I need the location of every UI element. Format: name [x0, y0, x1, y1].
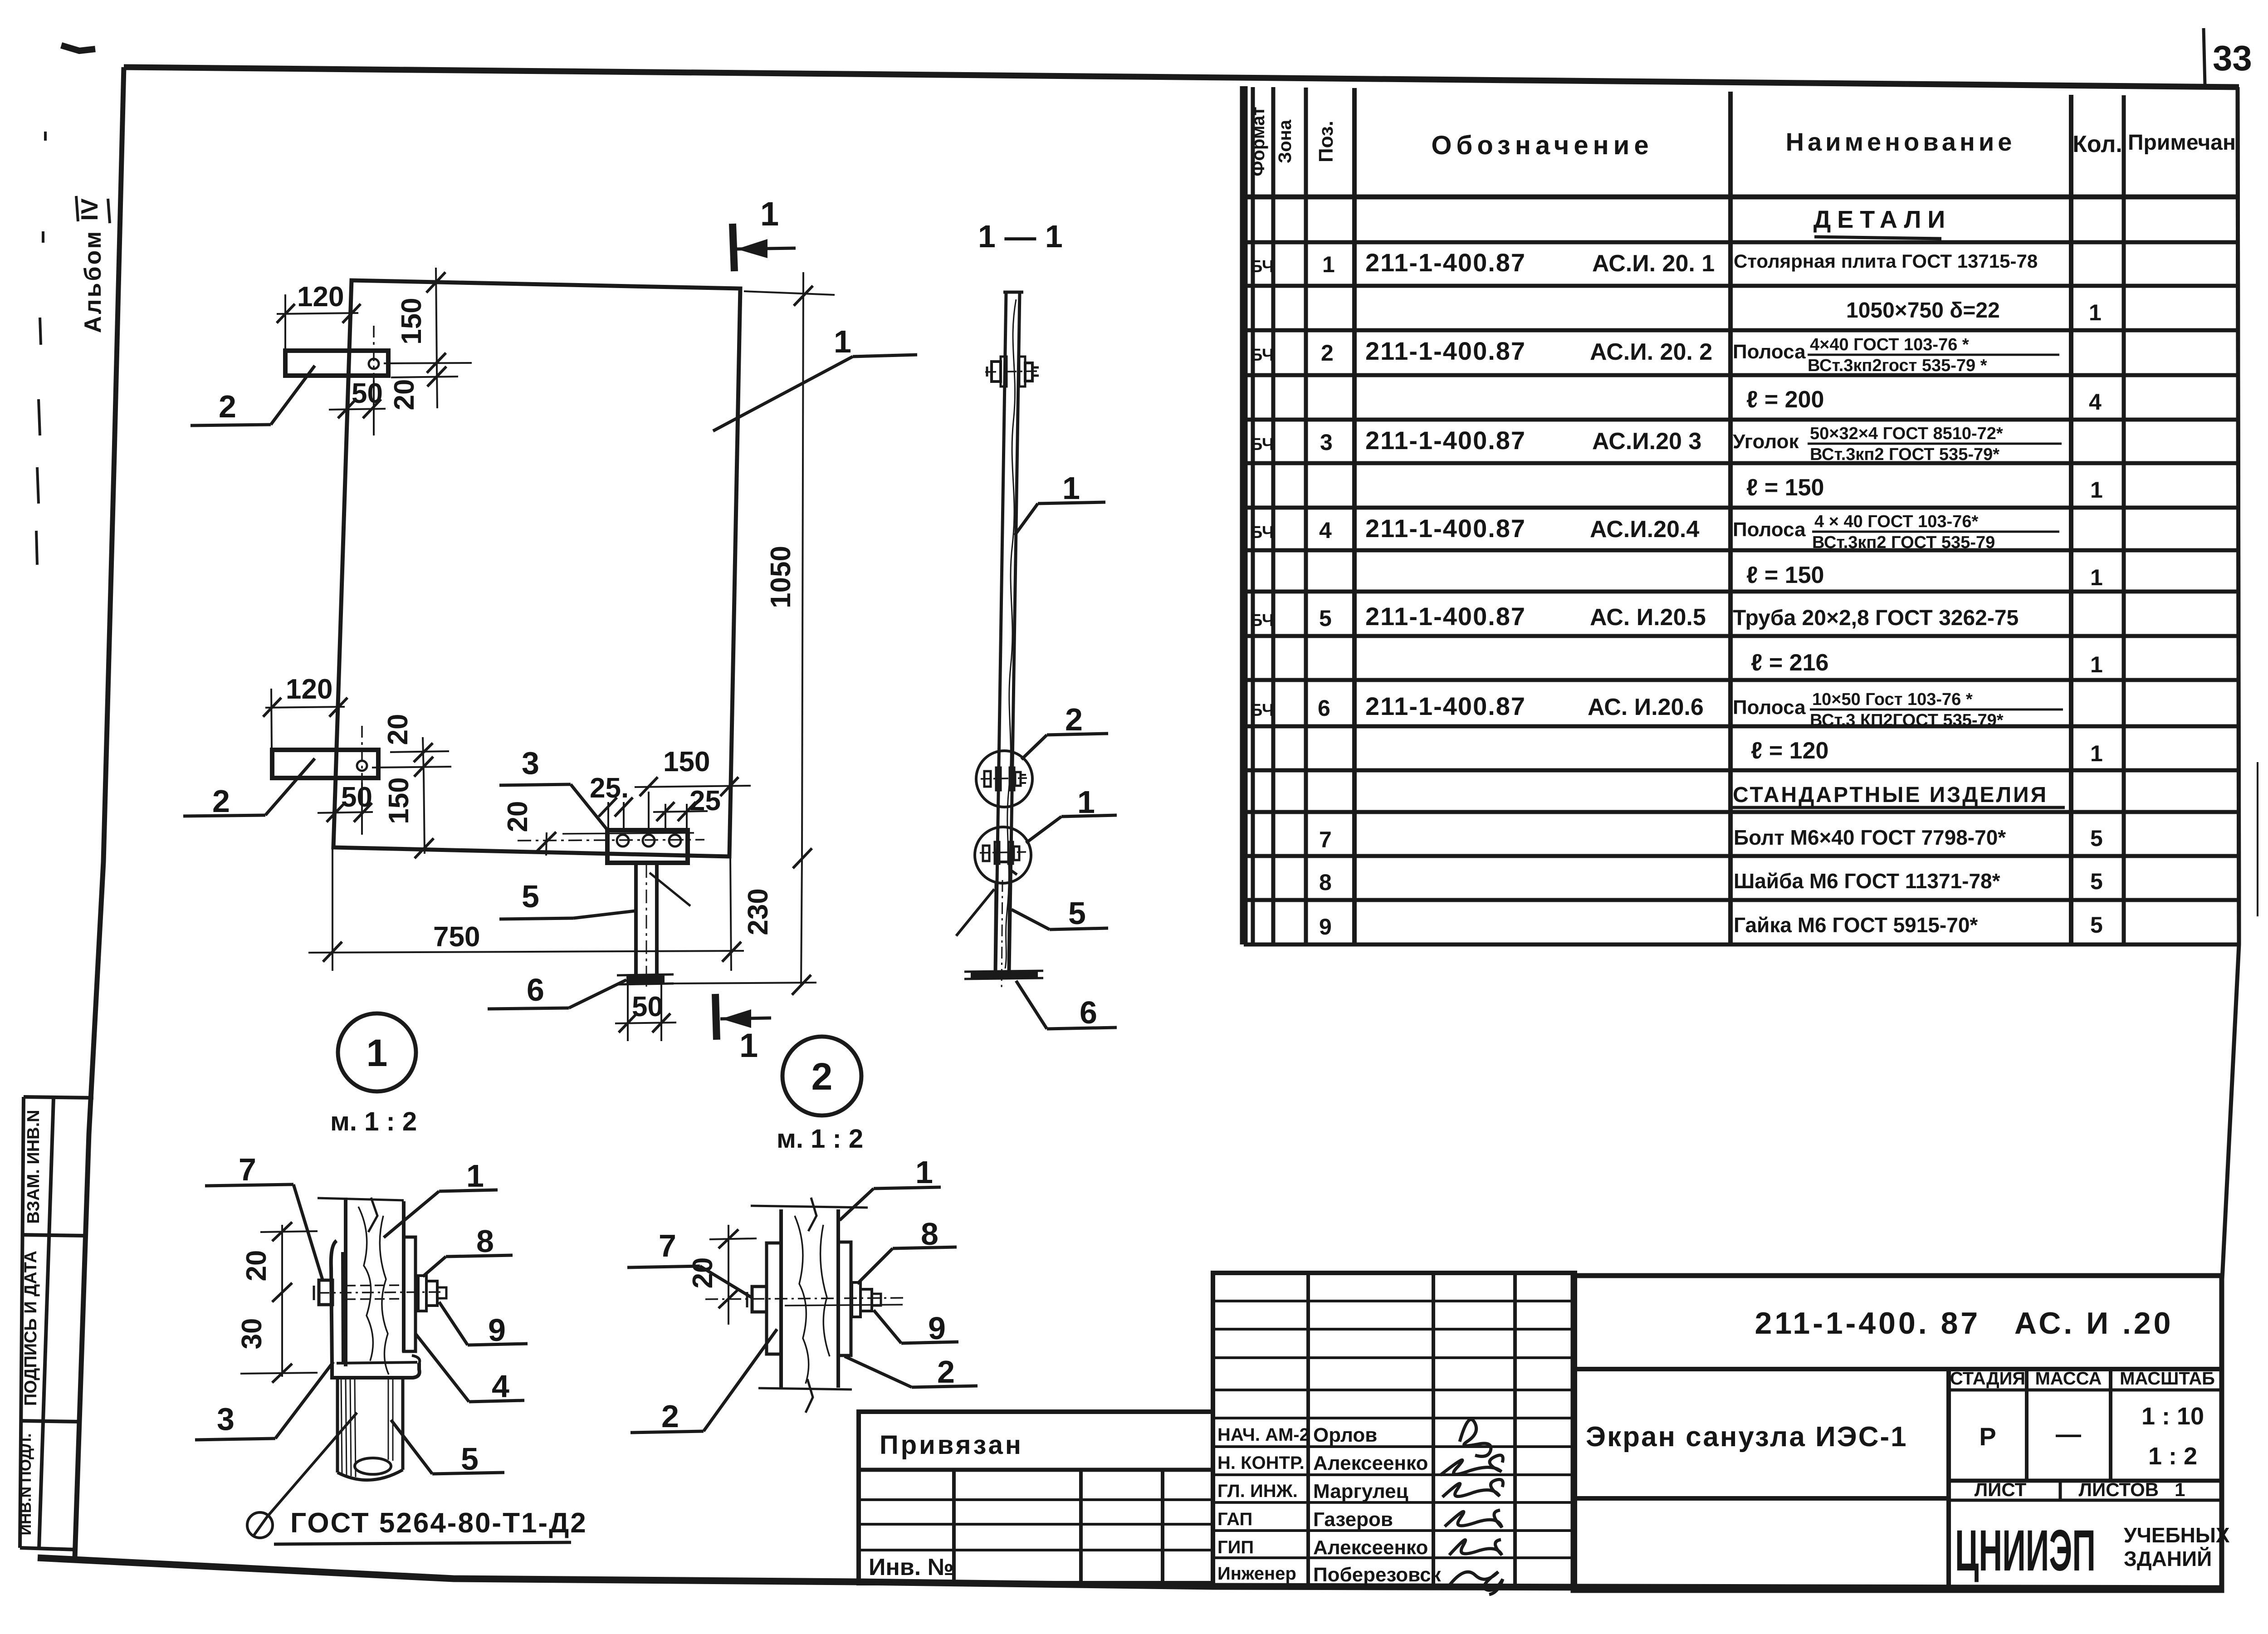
svg-text:Привязан: Привязан — [880, 1430, 1023, 1460]
svg-text:ЦНИИЭП: ЦНИИЭП — [1955, 1518, 2096, 1583]
title block main — [1573, 1276, 2222, 1590]
svg-text:2: 2 — [1321, 340, 1334, 366]
svg-text:2: 2 — [219, 389, 236, 424]
svg-text:Примечан: Примечан — [2128, 131, 2236, 155]
svg-text:Н. КОНТР.: Н. КОНТР. — [1217, 1453, 1305, 1473]
list listov row — [1949, 1479, 2222, 1500]
svg-text:Формат: Формат — [1248, 107, 1268, 176]
row 4b l150 — [1746, 562, 2103, 590]
svg-text:Экран санузла ИЭС-1: Экран санузла ИЭС-1 — [1586, 1421, 1908, 1453]
svg-text:211-1-400.87: 211-1-400.87 — [1365, 692, 1526, 720]
svg-text:ℓ = 200: ℓ = 200 — [1746, 386, 1824, 413]
detail1 nut poz9 — [426, 1281, 446, 1306]
svg-text:НАЧ. АМ-2: НАЧ. АМ-2 — [1217, 1425, 1310, 1445]
svg-text:7: 7 — [659, 1228, 676, 1263]
sidebar box — [20, 1097, 93, 1550]
label 6 section leader — [1016, 981, 1117, 1030]
leader line lower-left section — [956, 889, 994, 936]
plate poz3 front — [518, 802, 704, 863]
detail2 label 7 — [627, 1228, 753, 1298]
svg-text:ℓ = 120: ℓ = 120 — [1751, 738, 1828, 764]
row 3b l150 — [1746, 475, 2103, 503]
weld leader small — [650, 873, 690, 906]
svg-text:1: 1 — [739, 1027, 758, 1064]
svg-text:ГОСТ 5264-80-Т1-Д2: ГОСТ 5264-80-Т1-Д2 — [290, 1507, 587, 1539]
dim 20 top — [389, 367, 458, 410]
svg-text:6: 6 — [1080, 995, 1097, 1030]
svg-text:—: — — [2056, 1419, 2081, 1448]
svg-text:20: 20 — [241, 1250, 272, 1282]
page number 33 — [2204, 28, 2252, 85]
detail circle 1 section — [975, 827, 1031, 883]
svg-text:БЧ: БЧ — [1250, 435, 1274, 454]
svg-text:ЗДАНИЙ: ЗДАНИЙ — [2124, 1547, 2212, 1570]
detail2 washer poz8 — [852, 1282, 860, 1317]
svg-text:5: 5 — [1319, 606, 1332, 631]
svg-text:20: 20 — [502, 801, 533, 832]
svg-text:Полоса: Полоса — [1733, 341, 1806, 363]
row 3 ugolok — [1250, 424, 2062, 464]
row 1b size — [1846, 298, 2102, 325]
top bolt assembly section — [985, 357, 1040, 386]
sheet frame bottom border — [38, 1558, 2220, 1589]
weld symbol gost — [247, 1413, 587, 1544]
dim 50 top — [329, 378, 386, 435]
sheet frame top border — [124, 67, 2239, 87]
svg-text:Наименование: Наименование — [1786, 127, 2016, 156]
row detali — [1813, 206, 1951, 239]
svg-text:1050: 1050 — [765, 546, 797, 608]
detail2 bolt head poz7 — [747, 1287, 767, 1312]
dim 120 bottom — [263, 674, 347, 750]
svg-text:ВСт.3кп2 ГОСТ 535-79*: ВСт.3кп2 ГОСТ 535-79* — [1810, 445, 1999, 464]
detail2 strip right poz2 — [838, 1242, 851, 1355]
svg-text:50: 50 — [632, 991, 663, 1022]
svg-text:2: 2 — [1065, 702, 1083, 737]
svg-text:4: 4 — [2089, 389, 2102, 415]
svg-text:Зона: Зона — [1275, 119, 1295, 163]
svg-text:IV: IV — [77, 198, 103, 220]
svg-text:БЧ: БЧ — [1250, 257, 1274, 276]
svg-text:211-1-400.87: 211-1-400.87 — [1365, 426, 1526, 455]
svg-text:1: 1 — [760, 195, 779, 233]
section mark 1 top — [733, 195, 796, 271]
svg-text:МАСШТАБ: МАСШТАБ — [2120, 1369, 2215, 1389]
row 1 plita — [1250, 248, 2038, 277]
label 6 front leader — [488, 972, 626, 1009]
signature block — [1213, 1273, 1575, 1595]
svg-text:211-1-400.87: 211-1-400.87 — [1365, 514, 1526, 543]
dim 50 foot — [615, 983, 676, 1041]
tsniiep logo — [1955, 1518, 2230, 1583]
svg-text:5: 5 — [2090, 826, 2103, 851]
svg-text:150: 150 — [383, 777, 415, 824]
foot plate poz6 front — [617, 974, 674, 984]
svg-text:Гайка М6 ГОСТ 5915-70*: Гайка М6 ГОСТ 5915-70* — [1734, 913, 1978, 937]
svg-text:1: 1 — [466, 1158, 484, 1194]
svg-text:25.: 25. — [590, 773, 629, 804]
foot plate section — [964, 971, 1043, 979]
svg-text:30: 30 — [236, 1318, 268, 1350]
dim 25 left — [590, 773, 633, 817]
dim 25 right — [653, 785, 721, 821]
dim 1050 — [744, 272, 835, 868]
svg-text:9: 9 — [928, 1311, 946, 1346]
svg-text:Полоса: Полоса — [1733, 519, 1806, 541]
svg-text:2: 2 — [811, 1055, 833, 1098]
svg-text:Столярная плита ГОСТ 13715-78: Столярная плита ГОСТ 13715-78 — [1734, 250, 2038, 272]
svg-text:1: 1 — [2090, 565, 2103, 590]
svg-text:5: 5 — [461, 1441, 479, 1477]
svg-text:1050×750 δ=22: 1050×750 δ=22 — [1846, 298, 2000, 323]
svg-text:1: 1 — [367, 1032, 388, 1074]
svg-text:ГАП: ГАП — [1217, 1509, 1252, 1529]
detail1 label 5 — [391, 1420, 504, 1477]
left page edge dashes — [36, 132, 45, 565]
tube poz5 front — [636, 863, 657, 987]
row 4 polosa — [1250, 512, 2059, 552]
svg-text:1 — 1: 1 — 1 — [978, 219, 1063, 254]
svg-text:ИНВ.N ПОДЛ.: ИНВ.N ПОДЛ. — [17, 1433, 34, 1536]
svg-text:ВСт.3 КП2ГОСТ 535-79*: ВСт.3 КП2ГОСТ 535-79* — [1810, 711, 2004, 730]
section mark 1 bottom — [715, 994, 771, 1064]
svg-text:Обозначение: Обозначение — [1431, 131, 1653, 160]
dim 150 bottom — [383, 757, 434, 858]
svg-text:Алексеенко: Алексеенко — [1313, 1452, 1428, 1474]
svg-text:Труба 20×2,8 ГОСТ 3262-75: Труба 20×2,8 ГОСТ 3262-75 — [1733, 606, 2019, 630]
label 1 panel leader — [713, 324, 917, 431]
svg-text:ВСт.3кп2 ГОСТ 535-79: ВСт.3кп2 ГОСТ 535-79 — [1812, 533, 1995, 552]
detail2 label 1 — [840, 1155, 941, 1220]
svg-text:5: 5 — [2090, 912, 2103, 938]
svg-text:ℓ = 150: ℓ = 150 — [1746, 475, 1824, 501]
row 6b l120 — [1751, 738, 2103, 766]
svg-text:9: 9 — [1319, 914, 1332, 939]
row 2 polosa — [1250, 335, 2059, 375]
svg-text:ℓ = 150: ℓ = 150 — [1746, 562, 1824, 588]
svg-text:УЧЕБНЫХ: УЧЕБНЫХ — [2124, 1523, 2230, 1547]
svg-text:АС.И. 20. 1: АС.И. 20. 1 — [1592, 250, 1715, 277]
bracket poz2 bottom — [272, 726, 378, 783]
row 9 gaika — [1319, 912, 2103, 939]
label 3 leader — [499, 745, 608, 831]
svg-text:ГИП: ГИП — [1217, 1537, 1254, 1557]
svg-text:20: 20 — [382, 714, 414, 745]
svg-text:ℓ = 216: ℓ = 216 — [1751, 650, 1828, 676]
svg-text:10×50 Гост 103-76 *: 10×50 Гост 103-76 * — [1812, 690, 1973, 709]
svg-text:ПОДПИСЬ И ДАТА: ПОДПИСЬ И ДАТА — [21, 1251, 40, 1406]
svg-text:Уголок: Уголок — [1733, 431, 1799, 453]
svg-text:Поз.: Поз. — [1315, 121, 1337, 162]
detail2 label 8 — [857, 1216, 957, 1284]
svg-text:4: 4 — [1319, 518, 1332, 543]
signatures squiggles — [1440, 1419, 1503, 1595]
svg-text:1: 1 — [1322, 252, 1335, 277]
svg-text:4: 4 — [492, 1369, 509, 1404]
svg-text:ЛИСТОВ 1: ЛИСТОВ 1 — [2079, 1479, 2185, 1500]
svg-text:БЧ: БЧ — [1250, 701, 1274, 720]
detail2 centerline — [705, 1298, 906, 1306]
detail1 label 4 — [415, 1334, 524, 1404]
dim 120 top — [277, 281, 361, 351]
svg-text:АС.И.20 3: АС.И.20 3 — [1592, 428, 1701, 455]
svg-text:1: 1 — [2090, 652, 2103, 677]
svg-text:ВЗАМ. ИНВ.N: ВЗАМ. ИНВ.N — [24, 1110, 43, 1223]
detail1 label 1 — [384, 1158, 498, 1238]
row 7 bolt — [1319, 826, 2103, 852]
corner scan mark — [61, 45, 95, 51]
svg-text:1: 1 — [915, 1155, 933, 1190]
detail1 bolt poz7 — [314, 1280, 445, 1305]
row 5b l216 — [1751, 650, 2103, 677]
svg-text:50×32×4 ГОСТ 8510-72*: 50×32×4 ГОСТ 8510-72* — [1810, 424, 2003, 443]
detail1 washer poz8 — [418, 1276, 426, 1311]
page edge artifact right — [2257, 762, 2258, 916]
dim 150 top — [384, 268, 472, 373]
svg-text:1 : 2: 1 : 2 — [2148, 1443, 2197, 1470]
sheet frame left border — [75, 67, 124, 1558]
svg-text:1: 1 — [2090, 741, 2103, 766]
svg-text:2: 2 — [212, 783, 230, 819]
svg-text:7: 7 — [1319, 827, 1332, 852]
tube section — [995, 880, 1010, 991]
svg-text:211-1-400.87: 211-1-400.87 — [1365, 248, 1526, 277]
svg-text:8: 8 — [476, 1223, 494, 1259]
svg-text:БЧ: БЧ — [1250, 611, 1274, 630]
svg-text:МАССА: МАССА — [2035, 1369, 2102, 1389]
svg-text:120: 120 — [286, 674, 332, 705]
svg-text:5: 5 — [2090, 869, 2103, 894]
svg-text:Инв. №: Инв. № — [869, 1554, 954, 1580]
row 8 shaiba — [1319, 869, 2103, 895]
svg-text:4×40 ГОСТ 103-76 *: 4×40 ГОСТ 103-76 * — [1810, 335, 1969, 354]
svg-text:5: 5 — [1068, 895, 1086, 931]
detail1 label 8 — [423, 1223, 513, 1277]
svg-text:Инженер: Инженер — [1217, 1564, 1296, 1584]
detail2 label 9 — [874, 1310, 958, 1346]
label 2 section leader — [1022, 702, 1108, 759]
detail2 label 2 right — [845, 1354, 978, 1389]
svg-text:6: 6 — [1318, 695, 1330, 721]
detail1 label 9 — [439, 1302, 528, 1348]
svg-text:2: 2 — [937, 1354, 955, 1389]
spec table grid — [1244, 86, 2239, 944]
detail bubble 1 — [330, 1013, 417, 1136]
dim 150 plate — [635, 746, 751, 830]
svg-text:м. 1 : 2: м. 1 : 2 — [777, 1124, 863, 1154]
svg-text:1: 1 — [2089, 300, 2102, 325]
svg-text:20: 20 — [389, 379, 420, 411]
row standartnye — [1732, 783, 2065, 807]
svg-text:Алексеенко: Алексеенко — [1313, 1536, 1428, 1559]
svg-text:8: 8 — [1319, 870, 1332, 895]
svg-text:Р: Р — [1979, 1422, 1996, 1451]
svg-text:1: 1 — [2090, 477, 2103, 503]
detail1 wood panel — [318, 1198, 404, 1375]
dim 20 plate — [502, 801, 556, 856]
detail2 nut poz9 — [860, 1289, 881, 1311]
svg-text:ГЛ. ИНЖ.: ГЛ. ИНЖ. — [1217, 1481, 1298, 1501]
svg-text:9: 9 — [488, 1312, 506, 1348]
detail bubble 2 label — [777, 1037, 863, 1154]
panel section bar — [996, 292, 1023, 971]
svg-text:Маргулец: Маргулец — [1313, 1480, 1408, 1502]
detail1 label 3 — [195, 1362, 333, 1440]
detail1 dim 30 — [236, 1318, 318, 1383]
label 1 lower section leader — [1026, 784, 1117, 843]
label 5 front leader — [499, 879, 635, 919]
svg-text:33: 33 — [2213, 38, 2252, 78]
svg-text:Кол.: Кол. — [2072, 131, 2122, 157]
bracket poz2 top — [285, 326, 388, 380]
detail2 label 2 left — [631, 1329, 777, 1434]
svg-text:ЛИСТ: ЛИСТ — [1975, 1479, 2027, 1500]
svg-text:211-1-400.87: 211-1-400.87 — [1365, 602, 1526, 631]
svg-text:Полоса: Полоса — [1733, 696, 1806, 719]
detail2 strip left poz2 — [767, 1243, 781, 1354]
detail2 wood board — [751, 1198, 868, 1413]
svg-text:ДЕТАЛИ: ДЕТАЛИ — [1813, 206, 1951, 233]
detail circle 2 section — [976, 751, 1032, 807]
svg-text:АС.И. 20. 2: АС.И. 20. 2 — [1590, 339, 1712, 365]
sheet frame right border — [2222, 87, 2239, 1279]
row 6 polosa — [1250, 690, 2063, 730]
svg-text:2: 2 — [661, 1399, 679, 1434]
svg-text:АС.И.20.4: АС.И.20.4 — [1590, 516, 1699, 543]
svg-text:1: 1 — [834, 324, 851, 359]
label 2 bottom leader — [183, 758, 315, 819]
svg-text:Альбом: Альбом — [80, 230, 106, 333]
label 1 mid section — [1015, 470, 1105, 535]
svg-text:Поберезовск: Поберезовск — [1313, 1564, 1442, 1586]
detail1 strip poz4 — [404, 1237, 415, 1351]
dim 50 bottom — [318, 782, 373, 835]
detail1 dim 20 — [241, 1222, 318, 1377]
svg-text:150: 150 — [396, 298, 427, 344]
label 2 top leader — [191, 366, 315, 426]
detail2 dim 20 — [687, 1225, 757, 1325]
svg-text:1 : 10: 1 : 10 — [2141, 1403, 2204, 1430]
svg-text:Газеров: Газеров — [1313, 1508, 1393, 1531]
svg-text:3: 3 — [522, 745, 539, 781]
svg-text:АС. И.20.5: АС. И.20.5 — [1590, 604, 1706, 631]
label 5 section leader — [1012, 895, 1108, 931]
svg-text:6: 6 — [527, 972, 544, 1008]
svg-text:Болт М6×40 ГОСТ 7798-70*: Болт М6×40 ГОСТ 7798-70* — [1734, 826, 2006, 849]
svg-text:211-1-400. 87 АС. И .20: 211-1-400. 87 АС. И .20 — [1755, 1306, 2174, 1340]
detail1 tube poz5 — [337, 1378, 403, 1480]
svg-text:5: 5 — [522, 879, 539, 914]
stadia massa masshtab — [1949, 1369, 2222, 1481]
svg-text:БЧ: БЧ — [1250, 346, 1274, 365]
svg-text:Орлов: Орлов — [1313, 1424, 1377, 1446]
row 5 truba — [1250, 602, 2019, 631]
panel front view outline — [333, 280, 740, 856]
svg-text:1: 1 — [1062, 470, 1080, 506]
album label — [76, 196, 110, 333]
privyazan block — [859, 1412, 1213, 1583]
svg-text:750: 750 — [433, 921, 480, 953]
detail1 label 7 — [205, 1152, 323, 1281]
svg-text:3: 3 — [217, 1401, 235, 1437]
svg-text:ВСт.3кп2гост 535-79 *: ВСт.3кп2гост 535-79 * — [1808, 356, 1987, 375]
svg-text:БЧ: БЧ — [1250, 523, 1274, 542]
svg-text:50: 50 — [352, 378, 383, 409]
svg-text:4 × 40 ГОСТ 103-76*: 4 × 40 ГОСТ 103-76* — [1814, 512, 1978, 531]
dim 20 bottom — [372, 714, 451, 773]
svg-text:3: 3 — [1320, 430, 1333, 455]
svg-text:Шайба М6 ГОСТ 11371-78*: Шайба М6 ГОСТ 11371-78* — [1734, 869, 2000, 893]
detail1 bracket poz3 — [331, 1241, 420, 1378]
dim 750 — [308, 847, 744, 971]
svg-text:211-1-400.87: 211-1-400.87 — [1365, 337, 1526, 365]
svg-text:120: 120 — [297, 281, 344, 313]
svg-text:СТАДИЯ: СТАДИЯ — [1950, 1369, 2025, 1389]
svg-text:230: 230 — [743, 888, 774, 935]
svg-text:7: 7 — [239, 1152, 256, 1187]
dim 230 — [674, 859, 816, 995]
svg-text:м. 1 : 2: м. 1 : 2 — [330, 1107, 417, 1136]
svg-text:150: 150 — [663, 746, 710, 778]
row 2b l200 — [1746, 386, 2102, 415]
svg-text:АС. И.20.6: АС. И.20.6 — [1588, 694, 1704, 720]
svg-text:СТАНДАРТНЫЕ ИЗДЕЛИЯ: СТАНДАРТНЫЕ ИЗДЕЛИЯ — [1733, 783, 2048, 807]
